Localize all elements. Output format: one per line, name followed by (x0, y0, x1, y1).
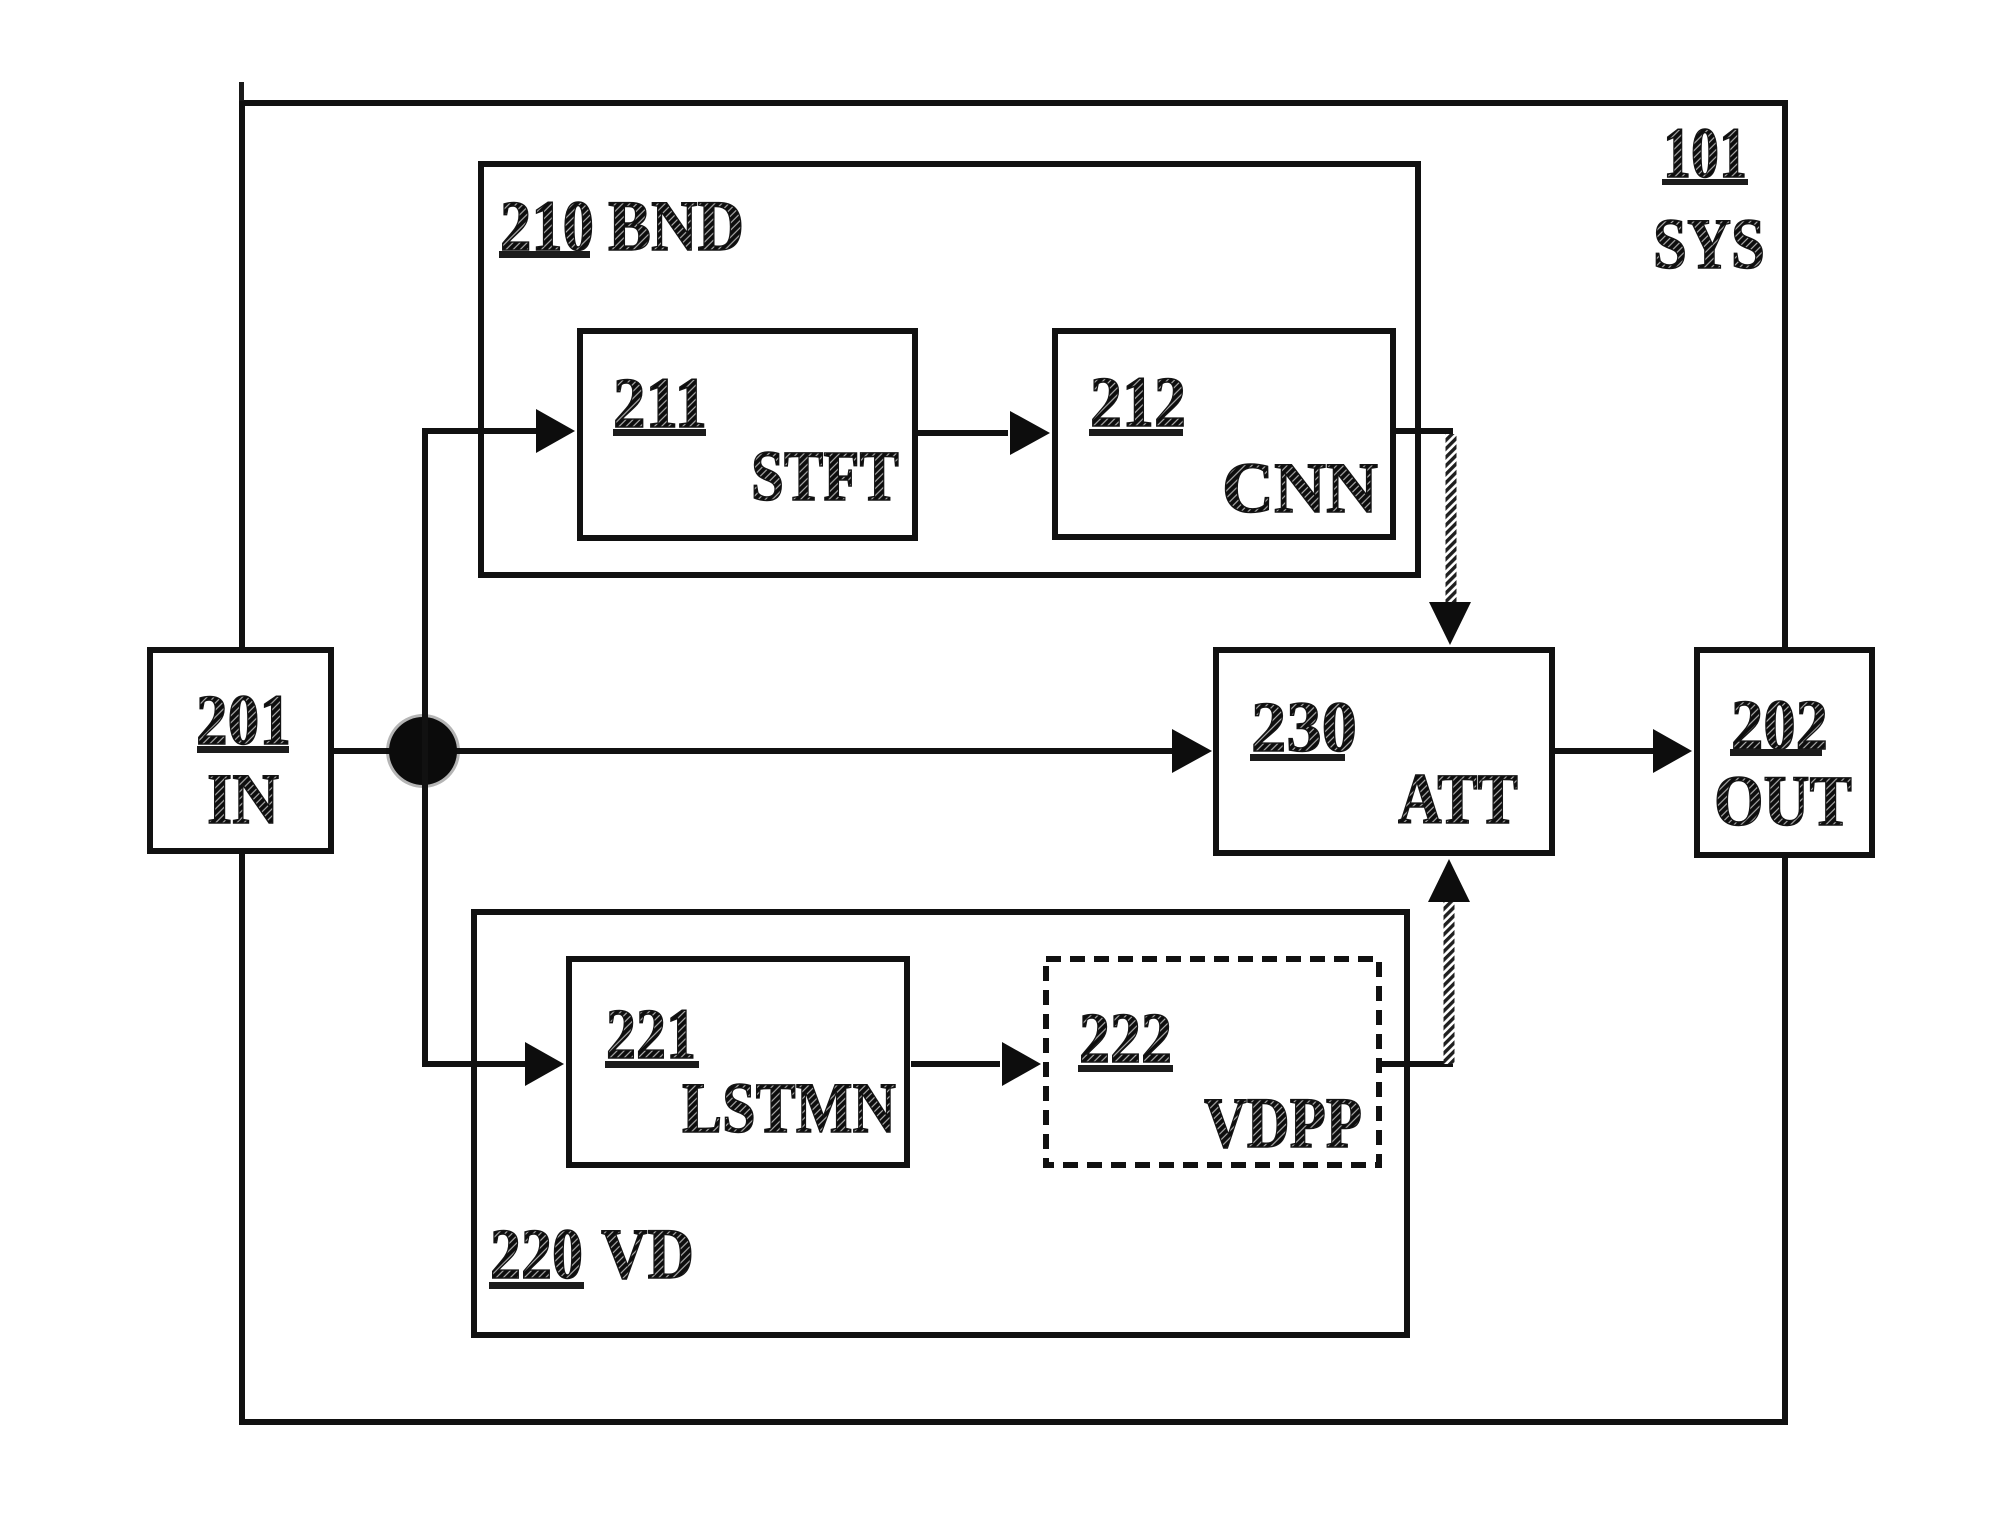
box 230 ATT (1216, 650, 1552, 853)
svg-text:LSTMN: LSTMN (682, 1068, 896, 1148)
arrowhead into VDPP (1002, 1042, 1041, 1086)
arrowhead into OUT (1653, 729, 1692, 773)
svg-text:ATT: ATT (1398, 759, 1518, 839)
underline 101 (1662, 179, 1748, 185)
underline 202 (1730, 749, 1822, 756)
underline 221 (605, 1061, 699, 1068)
wire LSTMN to VDPP (911, 1061, 1000, 1067)
box 211 STFT (580, 331, 915, 538)
underline 210 (499, 251, 590, 258)
underline 201 (197, 746, 289, 753)
wire STFT to CNN (918, 430, 1008, 436)
wire stub above outer top-left corner (239, 82, 244, 101)
arrowhead into CNN (1010, 411, 1050, 455)
box 221 LSTMN (569, 959, 907, 1165)
wire CNN exit horizontal (1393, 428, 1453, 434)
wire hatched riser down to ATT (1446, 434, 1457, 602)
wire main horizontal IN to ATT (334, 748, 1174, 754)
box 212 CNN (1055, 331, 1393, 537)
svg-text:SYS: SYS (1653, 204, 1765, 284)
svg-text:IN: IN (207, 759, 279, 839)
wire hatched riser up to ATT (1444, 902, 1455, 1064)
box 101 SYS outer container (242, 103, 1785, 1422)
svg-text:STFT: STFT (751, 436, 899, 516)
svg-text:BND: BND (608, 186, 744, 266)
wire riser down from junction to LSTMN (425, 751, 525, 1064)
arrowhead into ATT left (1172, 729, 1212, 773)
svg-text:OUT: OUT (1714, 761, 1852, 841)
underline 222 (1078, 1065, 1173, 1072)
underline 211 (613, 429, 706, 436)
box 210 BND container (481, 164, 1418, 575)
underline 212 (1089, 429, 1183, 436)
wire ATT to OUT (1555, 748, 1654, 754)
wire VDPP exit horizontal (1382, 1061, 1453, 1067)
arrowhead up into ATT bottom (1428, 859, 1470, 902)
box 202 OUT (1697, 650, 1872, 855)
svg-text:VDPP: VDPP (1204, 1083, 1362, 1163)
box 222 VDPP dashed (1046, 959, 1379, 1165)
box 201 IN (150, 650, 331, 851)
underline 220 (489, 1282, 584, 1289)
wire riser up from junction to STFT (425, 431, 537, 751)
arrowhead down into ATT top (1429, 602, 1471, 645)
svg-text:VD: VD (601, 1214, 694, 1294)
arrowhead into LSTMN (525, 1042, 564, 1086)
underline 230 (1250, 754, 1345, 761)
box 220 VD container (474, 912, 1407, 1335)
svg-text:CNN: CNN (1222, 448, 1378, 528)
node junction dot (386, 714, 460, 788)
arrowhead into STFT (536, 409, 575, 453)
